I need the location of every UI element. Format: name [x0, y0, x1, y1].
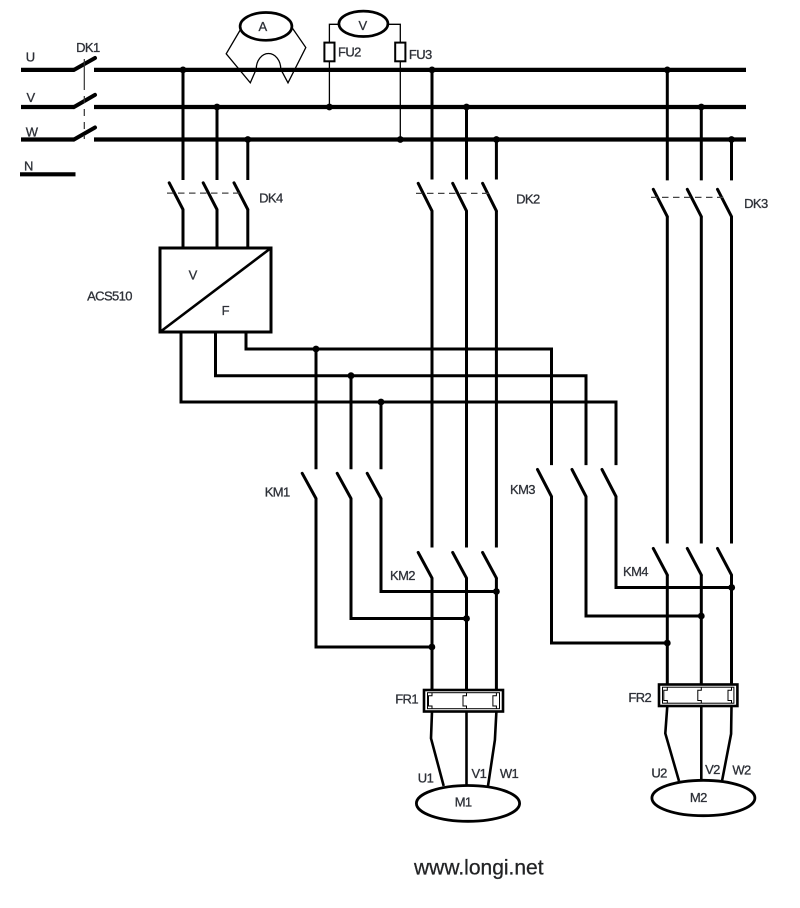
- wire drive output 1 (to KM3 pole1 top, dot to KM1): [246, 334, 552, 466]
- thermal relay FR1: [424, 690, 503, 712]
- node junction out3-KM1: [378, 399, 385, 406]
- switch DK2 pole 1: [418, 70, 432, 548]
- bus W phase line: [21, 137, 746, 141]
- contactor KM4 pole 2: [687, 548, 701, 685]
- wire voltmeter right lead: [388, 24, 400, 42]
- svg-text:M2: M2: [690, 790, 707, 805]
- contactor KM3 pole 2: [572, 470, 701, 617]
- svg-text:ACS510: ACS510: [87, 289, 132, 304]
- motor M1: [416, 786, 519, 822]
- svg-text:W2: W2: [732, 762, 751, 777]
- node junction U-DK3: [664, 67, 671, 74]
- contactor KM4 pole 1: [653, 548, 667, 685]
- svg-text:U1: U1: [418, 771, 434, 786]
- wire FU3 to bus W: [399, 61, 401, 139]
- bus U phase line: [21, 68, 746, 72]
- svg-text:KM2: KM2: [390, 568, 415, 583]
- contactor KM3 pole 3: [602, 470, 732, 588]
- node junction V-DK3: [698, 104, 705, 111]
- svg-text:V: V: [358, 18, 367, 33]
- wire voltmeter left lead: [329, 24, 339, 42]
- svg-text:FR2: FR2: [628, 690, 651, 705]
- contactor KM1 pole 1: [302, 349, 432, 647]
- svg-text:KM3: KM3: [510, 482, 535, 497]
- motor M2: [652, 780, 755, 815]
- svg-text:FU3: FU3: [409, 47, 432, 62]
- fuse FU2: [324, 43, 334, 62]
- contactor KM1 pole 3: [367, 402, 496, 592]
- switch DK3 linkage dashed: [651, 196, 724, 198]
- contactor KM2 pole 1: [418, 553, 432, 692]
- node junction U-DK2: [429, 67, 436, 74]
- switch DK1 linkage dashed: [83, 59, 85, 139]
- svg-text:N: N: [24, 159, 33, 174]
- node junction FU2-V: [326, 104, 333, 111]
- bus V phase line: [21, 105, 746, 109]
- svg-text:KM1: KM1: [265, 485, 290, 500]
- svg-text:DK1: DK1: [76, 40, 100, 55]
- current transformer TA (clamp around U): [226, 28, 306, 83]
- svg-text:DK2: DK2: [516, 192, 540, 207]
- node junction out2-KM1: [348, 372, 355, 379]
- node junction KM3p3: [728, 584, 735, 591]
- svg-text:FR1: FR1: [395, 692, 418, 707]
- node junction KM1p1: [429, 644, 436, 651]
- wire drive output 3: [181, 334, 616, 466]
- node junction V-DK4: [214, 104, 221, 111]
- drive ACS510 box: [160, 248, 271, 332]
- svg-text:www.longi.net: www.longi.net: [413, 857, 544, 880]
- switch DK1 pole W blade: [74, 128, 95, 140]
- contactor KM1 pole 2: [337, 376, 466, 619]
- ammeter A: [240, 13, 292, 41]
- fuse FU3: [395, 43, 405, 62]
- svg-text:W: W: [26, 125, 39, 140]
- switch DK2 pole 2: [453, 107, 467, 548]
- contactor KM2 pole 2: [453, 553, 467, 692]
- node junction out1-KM1: [313, 346, 320, 353]
- svg-text:M1: M1: [455, 795, 472, 810]
- node junction FU3-W: [397, 136, 404, 143]
- svg-text:FU2: FU2: [338, 45, 361, 60]
- contactor KM2 pole 3: [483, 553, 497, 692]
- switch DK2 linkage dashed: [416, 192, 489, 194]
- node junction W-DK2: [493, 136, 500, 143]
- thermal relay FR2: [659, 685, 737, 707]
- voltmeter V: [339, 11, 388, 36]
- switch DK4 pole 1: [169, 70, 183, 250]
- wire FU2 to bus V: [328, 61, 330, 107]
- bus N neutral line: [20, 172, 76, 176]
- svg-text:U2: U2: [651, 766, 667, 781]
- switch DK3 pole 2: [687, 107, 701, 544]
- wire motor M1 leads: [431, 712, 496, 787]
- wire drive output 2: [216, 334, 587, 466]
- node junction V-DK2: [463, 104, 470, 111]
- node junction KM1p3: [493, 588, 500, 595]
- switch DK4 pole 3: [234, 140, 248, 250]
- switch DK4 linkage dashed: [167, 192, 241, 194]
- svg-text:V: V: [189, 268, 198, 283]
- svg-text:W1: W1: [500, 766, 519, 781]
- svg-text:DK3: DK3: [744, 196, 768, 211]
- svg-text:DK4: DK4: [259, 191, 283, 206]
- node junction W-DK4: [244, 136, 251, 143]
- svg-text:U: U: [26, 49, 35, 64]
- node junction KM1p2: [463, 615, 470, 622]
- svg-text:F: F: [222, 303, 230, 318]
- switch DK3 pole 3: [718, 140, 732, 544]
- node junction KM3p1: [664, 640, 671, 647]
- svg-text:KM4: KM4: [623, 564, 648, 579]
- node junction KM3p2: [698, 613, 705, 620]
- node junction W-DK3: [728, 136, 735, 143]
- svg-text:V: V: [27, 90, 36, 105]
- contactor KM4 pole 3: [718, 548, 732, 685]
- switch DK4 pole 2: [203, 107, 217, 250]
- switch DK1 pole V blade: [74, 95, 95, 107]
- switch DK2 pole 3: [483, 140, 497, 548]
- node junction U-DK4: [180, 67, 187, 74]
- contactor KM3 pole 1: [538, 470, 668, 644]
- switch DK3 pole 1: [653, 70, 667, 544]
- wire motor M2 leads: [665, 706, 731, 781]
- svg-text:V2: V2: [705, 762, 720, 777]
- svg-text:V1: V1: [472, 766, 487, 781]
- svg-text:A: A: [258, 19, 267, 34]
- switch DK1 pole U blade: [74, 58, 95, 70]
